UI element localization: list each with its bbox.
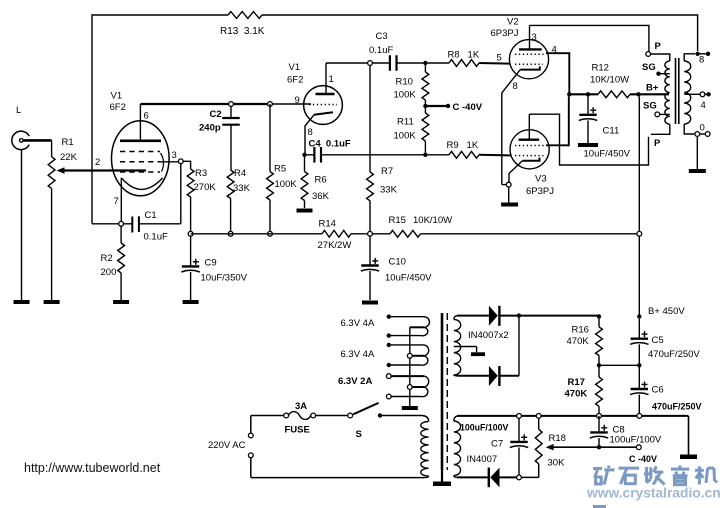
node junction B+ 450V: [597, 306, 686, 319]
svg-text:C10: C10: [389, 257, 406, 268]
wire feedback loop from V1 cathode to output transformer tap 8: [92, 15, 698, 224]
node junction B+ OPT center tap: [636, 92, 640, 96]
wire input jack to R1: [23, 140, 51, 156]
ground secondary 0 tap: [689, 136, 706, 173]
resistor R7: [367, 65, 398, 233]
wire pin1 to C3: [326, 62, 390, 64]
svg-text:7: 7: [114, 196, 119, 207]
power transformer HV secondary winding: [454, 316, 477, 376]
ground main filter: [680, 416, 697, 459]
node terminal SG upper: [642, 62, 670, 76]
svg-text:6F2: 6F2: [287, 75, 303, 86]
output transformer core: [676, 58, 679, 124]
svg-text:8: 8: [513, 81, 518, 92]
node junction rail to B+ riser: [637, 231, 642, 236]
node junction R5 rail: [268, 231, 273, 236]
ground C11: [578, 143, 598, 147]
wire B+ riser to power supply: [638, 97, 640, 317]
svg-text:6.3V 4A: 6.3V 4A: [341, 318, 375, 329]
svg-text:C7: C7: [491, 439, 503, 450]
output transformer secondary winding: [684, 54, 700, 134]
resistor R1 volume potentiometer: [48, 137, 77, 189]
resistor R5: [267, 104, 298, 234]
node junction V2 V3 cathodes: [502, 182, 511, 202]
svg-text:R2: R2: [101, 253, 113, 264]
svg-text:R11: R11: [397, 117, 414, 128]
node junction rectifier output: [517, 313, 521, 317]
svg-text:0.1uF: 0.1uF: [144, 232, 168, 243]
svg-text:IN4007x2: IN4007x2: [468, 330, 509, 341]
node terminal P bottom: [654, 138, 661, 149]
svg-text:L: L: [16, 105, 21, 116]
svg-text:0: 0: [700, 123, 705, 134]
svg-text:1: 1: [329, 74, 334, 85]
wire supply rail R14 R15: [191, 233, 640, 235]
resistor R13: [220, 12, 265, 37]
svg-text:V1: V1: [289, 62, 301, 73]
svg-text:R13 3.1K: R13 3.1K: [220, 26, 265, 37]
node junction C6 bottom: [637, 414, 642, 419]
svg-text:470K: 470K: [565, 389, 588, 400]
svg-text:470K: 470K: [567, 336, 590, 347]
svg-text:C3: C3: [376, 31, 388, 42]
svg-text:C9: C9: [205, 258, 217, 269]
svg-text:6: 6: [144, 111, 149, 122]
resistor R11: [394, 106, 429, 155]
svg-text:100uF/100V: 100uF/100V: [460, 423, 509, 433]
resistor R10: [394, 63, 429, 106]
svg-text:36K: 36K: [312, 191, 330, 202]
svg-text:6F2: 6F2: [110, 102, 126, 113]
node terminal 220V AC lower: [248, 453, 253, 478]
node junction C11: [586, 92, 590, 96]
svg-text:R15: R15: [389, 215, 406, 226]
svg-text:33K: 33K: [380, 185, 398, 196]
wire R1 wiper to V1 grid pin 2: [62, 169, 146, 171]
node junction C7 bottom: [517, 475, 522, 480]
svg-text:3: 3: [172, 150, 177, 161]
svg-text:100K: 100K: [394, 131, 417, 142]
ground jack: [14, 150, 30, 304]
node secondary tap 8: [695, 52, 710, 66]
wire V2 screen pin4 to B+ node: [546, 53, 569, 94]
ground power transformer core: [433, 482, 451, 487]
svg-text:30K: 30K: [548, 458, 566, 469]
wire heater common to ground: [409, 327, 411, 406]
power transformer primary 220V winding: [251, 416, 429, 478]
wire midpoint rail: [597, 363, 642, 367]
svg-text:9: 9: [295, 95, 300, 106]
ground R1: [44, 189, 60, 305]
resistor R2: [101, 226, 125, 300]
svg-text:6P3PJ: 6P3PJ: [526, 186, 554, 197]
ground R2: [113, 300, 129, 304]
node junction V1 pin3: [178, 159, 183, 164]
wire R18 wiper to C8 and C -40V: [551, 446, 636, 448]
tube V1 triode section 6F2: [287, 62, 342, 153]
resistor R9: [428, 140, 479, 158]
text tubeworld url: [24, 461, 161, 475]
svg-text:220V AC: 220V AC: [208, 440, 246, 451]
node junction R5 plate rail: [268, 102, 273, 107]
svg-text:C6: C6: [652, 385, 664, 396]
svg-text:4: 4: [701, 100, 706, 111]
svg-text:100uF/100V: 100uF/100V: [610, 435, 662, 446]
capacitor C2: [199, 106, 240, 170]
wire fuse to switch: [316, 415, 348, 417]
capacitor C5: [630, 319, 700, 366]
svg-text:P: P: [655, 41, 662, 52]
svg-text:10K/10W: 10K/10W: [413, 215, 452, 226]
node junction R11 bottom C4 R9: [423, 153, 427, 157]
svg-text:100K: 100K: [275, 179, 298, 190]
capacitor C6: [630, 365, 701, 414]
node junction R7 C10 rail: [368, 231, 373, 236]
node terminal C -40V output: [629, 445, 657, 464]
wire switch to primary winding: [382, 415, 421, 417]
wire plate rail V1 pentode to C2 R5 and triode grid: [140, 103, 311, 105]
svg-text:R16: R16: [572, 325, 589, 336]
ground V2 V3 cathodes: [501, 203, 518, 207]
wire V2 plate pin3 to output transformer P top: [530, 25, 649, 51]
svg-text:V1: V1: [111, 91, 123, 102]
node junction C3 R10 R8: [423, 61, 427, 65]
svg-text:R4: R4: [234, 168, 246, 179]
wire B+ to center tap: [646, 83, 659, 94]
svg-text:100K: 100K: [394, 90, 417, 101]
svg-text:8: 8: [308, 127, 313, 138]
svg-text:C -40V: C -40V: [453, 102, 483, 113]
node L input jack: [12, 105, 29, 150]
heater winding 6.3V 4A first: [341, 315, 430, 338]
svg-text:0.1uF: 0.1uF: [369, 45, 393, 56]
svg-text:6.3V 4A: 6.3V 4A: [341, 349, 375, 360]
svg-text:27K/2W: 27K/2W: [318, 240, 352, 251]
power transformer bias winding: [454, 416, 461, 478]
svg-text:22K: 22K: [60, 152, 78, 163]
resistor R6: [301, 155, 329, 208]
svg-text:R12: R12: [592, 63, 609, 74]
svg-text:470uF/250V: 470uF/250V: [652, 402, 702, 412]
svg-text:C5: C5: [652, 335, 664, 346]
svg-text:R6: R6: [315, 175, 327, 186]
svg-text:SG: SG: [643, 101, 657, 112]
svg-text:6.3V 2A: 6.3V 2A: [338, 376, 372, 387]
node secondary tap 0: [695, 123, 710, 137]
wire R8 to V2 grid pin5: [479, 62, 511, 65]
node junction screens: [567, 92, 571, 96]
capacitor C8: [590, 416, 662, 447]
svg-text:P: P: [654, 138, 661, 149]
node junction V1 triode cathode C4 R6: [302, 153, 306, 157]
diode D2 IN4007 lower: [457, 316, 519, 386]
svg-text:3A: 3A: [295, 401, 307, 412]
capacitor C4: [305, 139, 425, 163]
svg-text:8: 8: [699, 55, 704, 66]
resistor R4: [227, 168, 250, 234]
node secondary tap 4: [700, 92, 711, 111]
svg-text:www.crystalradio.cn: www.crystalradio.cn: [586, 486, 721, 501]
svg-text:10K/10W: 10K/10W: [590, 75, 629, 86]
heater winding 6.3V 2A: [338, 374, 429, 399]
resistor R18 bias potentiometer: [535, 414, 566, 469]
svg-text:IN4007: IN4007: [467, 454, 498, 465]
capacitor C9: [181, 236, 247, 300]
node junction R17 bottom: [597, 414, 602, 419]
resistor R14: [318, 219, 352, 252]
wire B+ screen line: [569, 93, 669, 95]
svg-text:C2: C2: [210, 109, 222, 120]
wire V3 screen to B+ node: [546, 97, 569, 146]
svg-text:10uF/450V: 10uF/450V: [584, 149, 631, 160]
svg-text:http://www.tubeworld.net: http://www.tubeworld.net: [24, 461, 161, 475]
switch S: [348, 403, 382, 440]
svg-text:R3: R3: [195, 168, 207, 179]
svg-text:V3: V3: [535, 174, 547, 185]
svg-text:10uF/450V: 10uF/450V: [385, 273, 432, 284]
tube V2 6P3PJ: [491, 17, 557, 185]
node junction C8 wiper: [597, 445, 601, 449]
capacitor C7: [460, 414, 528, 476]
svg-text:470uF/250V: 470uF/250V: [648, 349, 700, 360]
wire V3 plate to output transformer P bottom: [529, 114, 648, 165]
svg-text:R7: R7: [381, 166, 393, 177]
svg-text:C11: C11: [603, 126, 620, 137]
capacitor C11: [579, 94, 631, 159]
svg-text:C4 0.1uF: C4 0.1uF: [309, 139, 351, 150]
svg-text:V2: V2: [507, 17, 519, 28]
node junction R3 C9 rail: [188, 231, 193, 236]
ground R6: [297, 209, 313, 213]
capacitor C1: [92, 164, 181, 243]
svg-text:33K: 33K: [233, 183, 251, 194]
wire R9 to V3 grid: [479, 154, 511, 157]
svg-text:R17: R17: [568, 377, 585, 388]
tube V1 pentode section 6F2: [95, 91, 180, 223]
svg-text:FUSE: FUSE: [285, 425, 310, 436]
ground heater common: [402, 406, 418, 410]
wire ground rail: [457, 415, 689, 417]
ground HV center tap: [471, 347, 485, 357]
node junction C2 top: [229, 102, 234, 107]
heater winding 6.3V 4A second: [341, 343, 429, 368]
resistor R17: [565, 365, 603, 414]
node terminal SG lower: [643, 101, 670, 117]
svg-text:B+ 450V: B+ 450V: [648, 306, 685, 317]
node junction R4 bottom rail: [228, 231, 233, 236]
ground C10: [362, 301, 378, 305]
svg-text:3: 3: [532, 32, 537, 43]
fuse 3A: [284, 401, 316, 436]
capacitor C3: [369, 31, 425, 71]
svg-text:2: 2: [95, 157, 100, 168]
svg-text:C1: C1: [145, 210, 157, 221]
svg-text:R5: R5: [274, 164, 286, 175]
output transformer primary winding: [651, 54, 670, 134]
tube V3 6P3PJ: [509, 114, 554, 197]
svg-text:10uF/350V: 10uF/350V: [201, 273, 248, 284]
svg-text:SG: SG: [642, 62, 656, 73]
resistor R15: [389, 215, 453, 237]
svg-text:R14: R14: [319, 219, 336, 230]
wire pin3 to R3: [183, 161, 191, 169]
diode D3 IN4007 bias: [457, 454, 519, 487]
svg-text:270K: 270K: [194, 182, 217, 193]
resistor R16: [567, 317, 603, 366]
svg-text:R10: R10: [396, 77, 413, 88]
svg-text:R1: R1: [62, 137, 74, 148]
resistor R3: [187, 168, 216, 234]
ground C9: [183, 300, 199, 304]
svg-text:R8 1K: R8 1K: [448, 50, 480, 61]
capacitor C10: [361, 236, 432, 300]
diode D1 IN4007 upper: [457, 306, 599, 341]
svg-text:S: S: [356, 429, 362, 440]
resistor R8: [428, 50, 480, 67]
svg-text:R18: R18: [549, 433, 566, 444]
svg-text:C -40V: C -40V: [629, 454, 657, 464]
svg-text:240p: 240p: [199, 123, 221, 134]
wire bias bottom rail: [519, 464, 539, 478]
power transformer core: [442, 313, 447, 482]
resistor R12: [590, 63, 630, 98]
node junction pin1 C3 R7: [368, 61, 373, 66]
node terminal P top: [646, 41, 662, 56]
wire AC input to fuse: [251, 416, 284, 434]
svg-text:5: 5: [497, 53, 502, 64]
text crystalradio watermark: [586, 466, 721, 508]
node terminal 220V AC upper: [208, 433, 253, 451]
node bias tap C -40V upper: [423, 102, 483, 113]
node junction V1 cathode C1 R2: [119, 221, 124, 226]
svg-text:200: 200: [101, 267, 117, 278]
svg-text:B+: B+: [646, 83, 659, 94]
svg-text:6P3PJ: 6P3PJ: [491, 28, 519, 39]
svg-text:R9 1K: R9 1K: [447, 140, 479, 151]
